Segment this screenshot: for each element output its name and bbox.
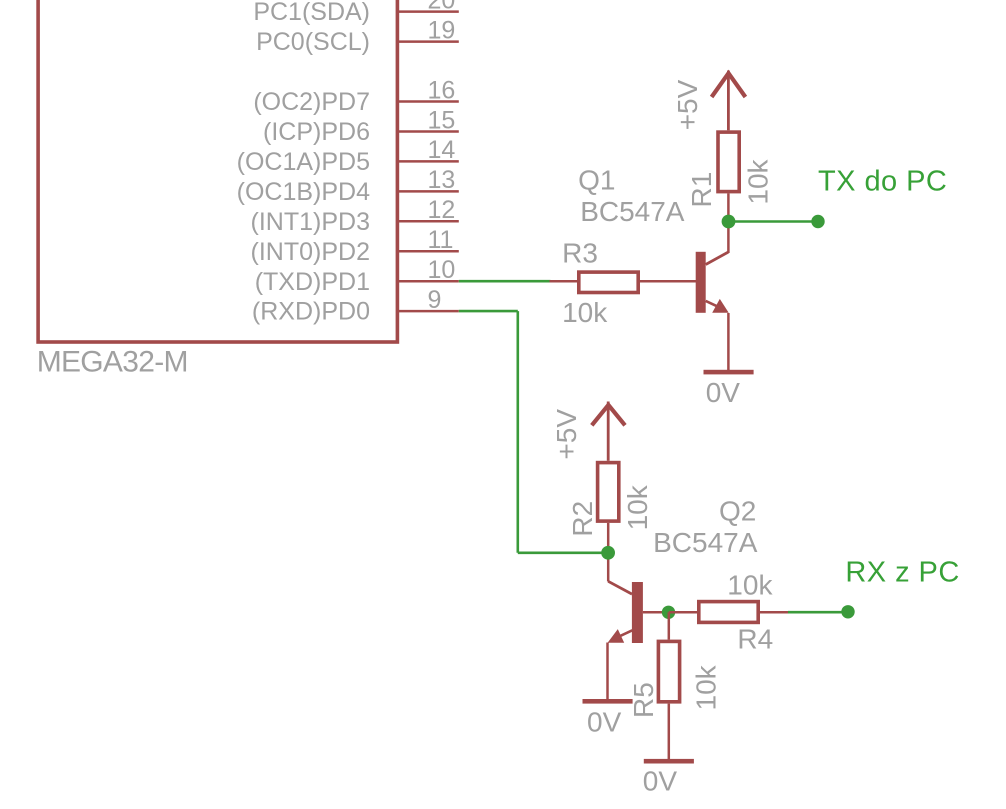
wire Q1 emitter to ground — [727, 313, 730, 370]
supply +5V symbol pin wire (Q1 branch) — [727, 71, 730, 131]
svg-text:R4: R4 — [737, 624, 773, 655]
pin 11 wire — [398, 250, 459, 253]
svg-text:19: 19 — [428, 16, 456, 44]
transistor Q1 emitter arrowhead — [712, 299, 729, 313]
supply +5V symbol arrow (Q1 branch) — [712, 73, 746, 97]
svg-text:0V: 0V — [587, 707, 622, 738]
pin 14 wire — [398, 160, 459, 163]
svg-text:14: 14 — [428, 136, 456, 164]
resistor R5 body — [658, 641, 679, 701]
svg-text:+5V: +5V — [551, 409, 582, 460]
node Q2 base junction dot — [662, 606, 675, 619]
svg-text:(INT0)PD2: (INT0)PD2 — [251, 238, 370, 266]
IC U1 MEGA32-M box — [38, 0, 397, 342]
pin 15 wire — [398, 130, 459, 133]
transistor Q2 emitter diagonal — [620, 630, 633, 636]
svg-text:0V: 0V — [706, 377, 741, 408]
svg-text:(OC1B)PD4: (OC1B)PD4 — [237, 178, 370, 206]
svg-text:+5V: +5V — [672, 79, 703, 130]
wire R2 bottom to Q2 collector — [607, 523, 610, 582]
node TX junction dot — [722, 215, 736, 229]
resistor R3 body — [579, 272, 638, 292]
wire junction to R4 — [669, 611, 697, 614]
svg-text:(RXD)PD0: (RXD)PD0 — [252, 298, 370, 326]
ground 0V symbol (Q1 emitter) — [704, 370, 754, 375]
wire net RX z PC — [788, 611, 848, 614]
svg-text:R5: R5 — [628, 682, 659, 718]
wire Q2 emitter to ground — [606, 643, 609, 700]
svg-text:(INT1)PD3: (INT1)PD3 — [251, 208, 370, 236]
svg-text:R2: R2 — [567, 501, 598, 537]
wire Q2 base to junction — [643, 611, 669, 614]
svg-text:R1: R1 — [686, 172, 717, 208]
wire junction to R5 top — [668, 612, 671, 639]
wire R5 bottom to ground — [668, 704, 671, 761]
svg-text:(OC1A)PD5: (OC1A)PD5 — [237, 148, 370, 176]
wire net RXD horizontal segment from pin 9 — [459, 310, 518, 313]
svg-text:10k: 10k — [727, 570, 773, 601]
svg-text:10k: 10k — [691, 664, 722, 710]
svg-text:(TXD)PD1: (TXD)PD1 — [255, 268, 370, 296]
svg-text:PC1(SDA): PC1(SDA) — [253, 0, 370, 26]
svg-text:10: 10 — [428, 256, 456, 284]
resistor R2 body — [598, 463, 619, 521]
pin 19 wire — [398, 40, 459, 43]
pin 12 wire — [398, 220, 459, 223]
svg-text:TX do PC: TX do PC — [818, 166, 947, 198]
transistor Q1 emitter diagonal — [706, 301, 719, 307]
pin 16 wire — [398, 100, 459, 103]
resistor R4 body — [699, 602, 758, 623]
svg-text:(OC2)PD7: (OC2)PD7 — [253, 88, 370, 116]
wire R3 to Q1 base — [640, 280, 696, 283]
transistor Q1 base bar — [696, 252, 706, 313]
transistor Q2 base bar — [632, 582, 643, 643]
svg-text:BC547A: BC547A — [653, 527, 758, 558]
transistor Q2 collector diagonal — [608, 581, 632, 594]
svg-text:11: 11 — [428, 226, 454, 254]
wire R3 left pin stub — [550, 280, 578, 283]
wire R4 right pin stub — [760, 611, 788, 614]
svg-text:9: 9 — [428, 286, 442, 314]
svg-text:(ICP)PD6: (ICP)PD6 — [263, 118, 370, 146]
svg-text:20: 20 — [428, 0, 456, 14]
svg-text:13: 13 — [428, 166, 456, 194]
ground 0V symbol (Q2 emitter) — [583, 699, 633, 704]
resistor R1 body — [718, 132, 739, 192]
svg-text:10k: 10k — [743, 158, 774, 204]
node TX wire end dot — [811, 215, 824, 228]
pin 10 wire — [398, 280, 459, 283]
wire net RXD vertical segment — [516, 311, 519, 553]
svg-text:0V: 0V — [643, 766, 678, 797]
transistor Q1 collector diagonal — [706, 252, 729, 264]
svg-text:12: 12 — [428, 196, 456, 224]
wire net TXD horizontal segment (pin 10 to R3) — [459, 280, 551, 283]
svg-text:MEGA32-M: MEGA32-M — [37, 345, 188, 378]
supply +5V symbol arrow (Q2 branch) — [592, 405, 625, 425]
svg-text:BC547A: BC547A — [580, 196, 685, 227]
svg-text:RX z PC: RX z PC — [845, 556, 959, 588]
svg-text:15: 15 — [428, 106, 456, 134]
svg-text:R3: R3 — [562, 238, 598, 269]
ground 0V symbol (R5) — [644, 759, 694, 764]
transistor Q2 emitter arrowhead — [608, 629, 625, 643]
svg-text:Q1: Q1 — [578, 165, 615, 196]
wire R1 bottom to Q1 collector — [727, 193, 730, 253]
pin 9 wire — [398, 310, 459, 313]
node RXD junction dot — [601, 546, 615, 560]
svg-text:Q2: Q2 — [719, 495, 756, 526]
wire net TX do PC — [729, 220, 819, 223]
svg-text:10k: 10k — [562, 297, 608, 328]
node RX wire end dot — [841, 605, 854, 618]
svg-text:10k: 10k — [622, 484, 653, 530]
svg-text:PC0(SCL): PC0(SCL) — [256, 28, 370, 56]
svg-text:16: 16 — [428, 76, 456, 104]
supply +5V symbol pin wire (Q2 branch) — [607, 402, 610, 461]
pin 20 wire — [398, 10, 459, 13]
pin 13 wire — [398, 190, 459, 193]
wire net RXD horizontal segment to R2 junction — [518, 551, 608, 554]
